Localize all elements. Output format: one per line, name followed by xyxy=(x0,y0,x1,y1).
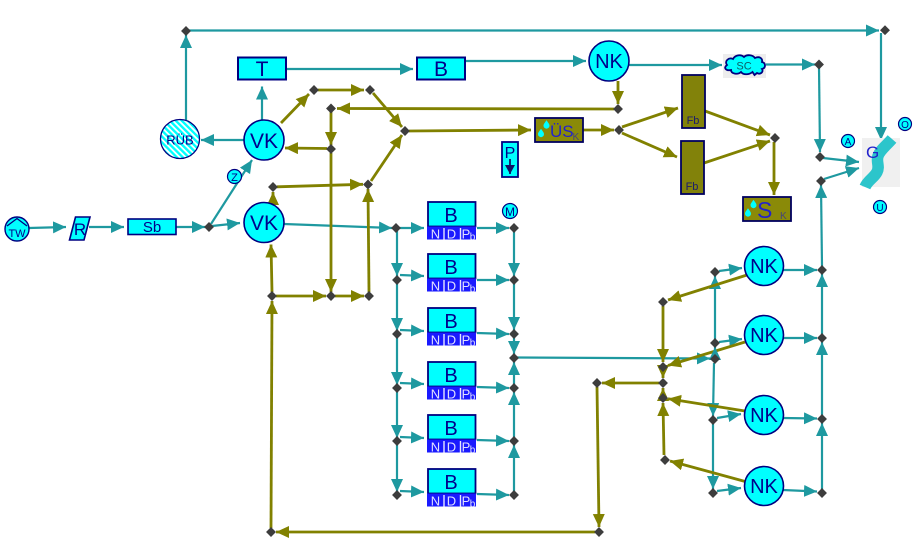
wire VK2 to B column xyxy=(284,224,392,228)
wire Fb1 to node xyxy=(705,111,770,135)
wire D4 to UeS xyxy=(409,130,531,131)
box UeS_K xyxy=(535,118,583,143)
node G left upper xyxy=(815,152,825,162)
svg-text:Fb: Fb xyxy=(687,115,700,127)
node D4 xyxy=(400,126,410,136)
svg-text:B: B xyxy=(444,472,457,494)
node B spine L row1 xyxy=(391,223,401,233)
node B spine R row5 xyxy=(509,436,519,446)
svg-text:VK: VK xyxy=(250,130,278,153)
circle U label xyxy=(874,201,887,215)
box B row3 xyxy=(427,308,476,349)
wire D1 to D2 xyxy=(318,89,364,92)
node D2 xyxy=(365,85,375,95)
node olive col 398 xyxy=(658,393,668,403)
box Sb xyxy=(128,219,176,236)
box B row5 xyxy=(427,415,476,456)
circle M label xyxy=(503,204,518,220)
node B spine L row3 xyxy=(392,329,402,339)
wire NK down to node xyxy=(617,81,620,104)
wire B row5 out xyxy=(477,440,509,441)
circle VK1 xyxy=(244,120,284,160)
wire B row4 out xyxy=(477,387,509,388)
svg-text:D: D xyxy=(447,227,456,242)
wire long line to NK column xyxy=(517,358,710,359)
box T xyxy=(238,58,286,82)
wire node to G diagonal xyxy=(824,168,859,179)
svg-text:Z: Z xyxy=(231,172,238,184)
wire into B row1 xyxy=(400,227,424,229)
box B row6 xyxy=(427,469,476,510)
wire D5 down to M node xyxy=(330,153,333,292)
svg-text:D: D xyxy=(447,279,456,294)
node N olive xyxy=(364,291,374,301)
svg-text:O: O xyxy=(901,120,909,131)
wire into B row3 xyxy=(400,330,424,331)
circle A label xyxy=(842,135,855,149)
node top left xyxy=(181,26,191,36)
wire VK1 to RUEB xyxy=(201,139,244,141)
node above VK2 xyxy=(268,182,278,192)
wire T to B xyxy=(286,68,413,70)
wire B row6 out xyxy=(477,494,509,495)
svg-text:NK: NK xyxy=(595,51,623,73)
circle NK4 xyxy=(745,396,784,435)
box S_K xyxy=(743,197,791,223)
node after SC xyxy=(814,60,824,70)
svg-text:SC: SC xyxy=(736,61,751,73)
wire bottom left up to L xyxy=(271,301,272,528)
wire NK3 to olive node2 xyxy=(668,342,745,366)
node D3 xyxy=(326,104,336,114)
wire node to VK2 xyxy=(212,223,240,226)
node olive col 302 xyxy=(658,297,668,307)
node top right xyxy=(880,25,890,35)
svg-text:S: S xyxy=(757,197,772,223)
svg-text:Sb: Sb xyxy=(143,219,161,236)
svg-text:U: U xyxy=(876,203,883,214)
svg-text:NK: NK xyxy=(750,476,778,498)
svg-text:D: D xyxy=(447,440,456,455)
wire NK3 out xyxy=(783,337,817,339)
svg-text:B: B xyxy=(444,418,457,440)
svg-text:NK: NK xyxy=(750,325,778,347)
wire olive node2 down xyxy=(662,371,665,378)
wire B row3 out xyxy=(477,333,509,334)
circle O label xyxy=(899,118,912,132)
node B spine R row6 xyxy=(509,490,519,500)
wire node down xyxy=(819,67,820,152)
wire Fb2 to node xyxy=(704,141,770,163)
svg-text:N: N xyxy=(431,333,440,348)
svg-text:B: B xyxy=(444,311,457,333)
wire olive node1 down xyxy=(662,306,665,362)
node olive col left xyxy=(592,378,602,388)
node B spine L row4 xyxy=(392,383,402,393)
svg-text:N: N xyxy=(431,387,440,402)
wire VK1 up to T xyxy=(261,87,263,122)
svg-text:b: b xyxy=(470,445,476,456)
wire node to D3 long xyxy=(337,107,614,110)
wire into B row6 xyxy=(400,491,424,492)
svg-text:b: b xyxy=(470,499,476,510)
wire D3 to D5 xyxy=(330,112,333,145)
box B top xyxy=(417,58,465,82)
node before SK xyxy=(770,133,780,143)
wire node to G xyxy=(823,158,859,162)
node G left lower xyxy=(816,176,826,186)
node B spine L row6 xyxy=(392,490,402,500)
wire NK4 out xyxy=(783,417,817,420)
wire olive column to left node xyxy=(602,382,659,385)
wire node to Fb1 xyxy=(622,108,678,127)
wire right column segment 3 xyxy=(821,342,823,415)
wire left spine seg4 xyxy=(396,391,398,438)
svg-text:TW: TW xyxy=(8,228,26,240)
wire SC to node xyxy=(766,63,815,65)
node right col 338 xyxy=(817,333,827,343)
wire olive node3 up xyxy=(662,388,665,393)
wire right column segment 4 xyxy=(821,423,823,489)
svg-text:b: b xyxy=(470,338,476,349)
svg-text:N: N xyxy=(431,279,440,294)
svg-text:NK: NK xyxy=(750,405,778,427)
circle Z label xyxy=(228,170,242,185)
wire node to NK3 xyxy=(719,339,742,342)
wire node to NK4 xyxy=(717,414,741,418)
wire right column up to G node xyxy=(821,185,822,266)
wire olive node4 up xyxy=(663,403,664,455)
node B spine R row4 xyxy=(509,383,519,393)
wire node to Fb2 xyxy=(622,133,677,157)
wire right down to bottom xyxy=(597,387,599,527)
svg-text:T: T xyxy=(256,58,269,81)
node B spine R junction xyxy=(509,353,519,363)
svg-text:ÜS: ÜS xyxy=(550,122,574,141)
svg-text:D: D xyxy=(447,387,456,402)
wire N node up to D6 xyxy=(368,189,369,292)
svg-text:D: D xyxy=(447,494,456,509)
box B row2 xyxy=(427,254,476,295)
wire D2 to D4 xyxy=(373,93,402,127)
svg-text:R: R xyxy=(74,220,86,239)
wire RUEB up to top node xyxy=(185,35,187,120)
svg-text:A: A xyxy=(845,137,852,148)
wire L to M xyxy=(276,295,326,298)
wire R to Sb xyxy=(89,226,124,228)
node B spine R row2 xyxy=(509,275,519,285)
svg-text:VK: VK xyxy=(250,212,278,235)
node olive col 460 xyxy=(660,455,670,465)
wire VK1 to D1 xyxy=(281,94,309,123)
wire B row2 out xyxy=(477,279,509,281)
wire NK column down segment xyxy=(713,363,714,416)
svg-text:RÜB: RÜB xyxy=(166,133,193,148)
wire bottom horizontal xyxy=(276,531,595,534)
svg-text:NK: NK xyxy=(750,256,778,278)
wire NK5 to olive node4 xyxy=(670,461,747,482)
wire NK to SC xyxy=(628,64,722,66)
node right col 419 xyxy=(817,414,827,424)
node B spine R row3 xyxy=(509,329,519,339)
box B row4 xyxy=(427,362,476,403)
wire right spine seg4 up xyxy=(513,362,515,384)
node after Sb xyxy=(204,222,214,232)
wire VK2 up to node xyxy=(272,192,275,204)
wire right spine seg3 down xyxy=(513,337,515,354)
wire D6 to D4 xyxy=(371,135,402,181)
svg-text:M: M xyxy=(505,205,515,219)
circle RUEB hatched xyxy=(161,120,200,159)
node D5 xyxy=(326,144,336,154)
node NK col junction xyxy=(710,354,720,364)
wire NK column junction up (overlay) xyxy=(714,347,716,356)
circle NK2 xyxy=(745,247,784,286)
wire into B row5 xyxy=(400,437,424,438)
node M olive xyxy=(326,291,336,301)
wire right column segment 2 xyxy=(821,274,823,334)
svg-text:b: b xyxy=(470,232,476,243)
svg-text:K: K xyxy=(780,211,787,222)
svg-text:D: D xyxy=(447,333,456,348)
wire node to NK2 xyxy=(719,268,742,271)
parallelogram R xyxy=(70,217,91,240)
svg-text:b: b xyxy=(470,392,476,403)
wire TW to R xyxy=(29,227,66,228)
wire UeS to node xyxy=(583,129,614,132)
box Fb2 xyxy=(681,141,704,194)
svg-text:B: B xyxy=(444,257,457,279)
wire right spine seg6 up xyxy=(513,445,515,491)
box P with arrow xyxy=(502,142,518,177)
node bottom right xyxy=(594,527,604,537)
node B spine L row5 xyxy=(392,436,402,446)
wire top horizontal line xyxy=(186,29,879,31)
wire B row1 out xyxy=(477,227,509,229)
svg-text:K: K xyxy=(573,132,580,143)
svg-text:B: B xyxy=(444,205,457,227)
node D6 xyxy=(363,180,373,190)
node after UeS xyxy=(614,125,624,135)
wire right spine seg5 up xyxy=(513,392,515,437)
node B spine L row2 xyxy=(392,275,402,285)
node right col 493 xyxy=(817,488,827,498)
wire NK column up segment xyxy=(714,276,716,339)
node NK col 272 xyxy=(710,267,720,277)
wire L up to VK2 xyxy=(271,245,272,293)
wire D5 to VK1 xyxy=(285,147,327,150)
wire left spine seg2 xyxy=(396,283,398,331)
node D1 xyxy=(309,85,319,95)
wire into B row2 xyxy=(400,275,424,276)
node olive col 383 xyxy=(658,378,668,388)
node bottom left xyxy=(266,527,276,537)
wire B to NK xyxy=(465,60,586,62)
svg-text:Fb: Fb xyxy=(686,181,699,193)
wire node to SK xyxy=(773,142,776,195)
svg-text:N: N xyxy=(431,227,440,242)
node NK col 343 xyxy=(710,338,720,348)
wire right spine seg1 down xyxy=(513,231,515,276)
wire M to N xyxy=(335,295,364,298)
wire right edge down to G xyxy=(880,33,882,140)
svg-text:B: B xyxy=(444,365,457,387)
node L xyxy=(267,291,277,301)
wire NK5 out xyxy=(783,490,817,492)
wire into B row4 xyxy=(400,383,424,384)
cloud SC xyxy=(723,54,766,78)
wire node to NK5 xyxy=(717,488,741,491)
wire NK2 out xyxy=(783,269,817,271)
node right col 270 xyxy=(817,265,827,275)
node under NK xyxy=(613,104,623,114)
svg-text:N: N xyxy=(431,494,440,509)
circle NK3 xyxy=(745,316,784,355)
node B spine R row1 xyxy=(509,223,519,233)
circle NK top xyxy=(589,41,629,81)
svg-text:N: N xyxy=(431,440,440,455)
G river xyxy=(862,138,900,187)
wire node to D6 xyxy=(277,184,363,187)
node olive col 367 xyxy=(658,362,668,372)
wire left spine seg3 xyxy=(396,337,398,385)
wire NK4 to olive node3 xyxy=(668,399,745,411)
wire Sb to node xyxy=(176,226,205,228)
circle NK5 xyxy=(745,467,784,506)
wire left spine seg5 xyxy=(396,444,398,492)
circle VK2 xyxy=(244,203,284,243)
wire node Z to VK1 xyxy=(211,160,252,224)
wire left spine seg1 xyxy=(396,231,398,276)
box B row1 xyxy=(427,202,476,243)
wire NK2 to olive node1 xyxy=(668,275,747,300)
wire right spine seg2 down xyxy=(513,283,515,330)
node NK col 493 xyxy=(708,488,718,498)
box Fb1 xyxy=(682,75,705,128)
wire NK column down segment 2 xyxy=(712,424,714,489)
svg-text:G: G xyxy=(866,143,879,162)
svg-text:B: B xyxy=(434,58,448,81)
svg-text:b: b xyxy=(470,284,476,295)
node NK col 420 xyxy=(708,415,718,425)
circle TW xyxy=(5,217,29,241)
